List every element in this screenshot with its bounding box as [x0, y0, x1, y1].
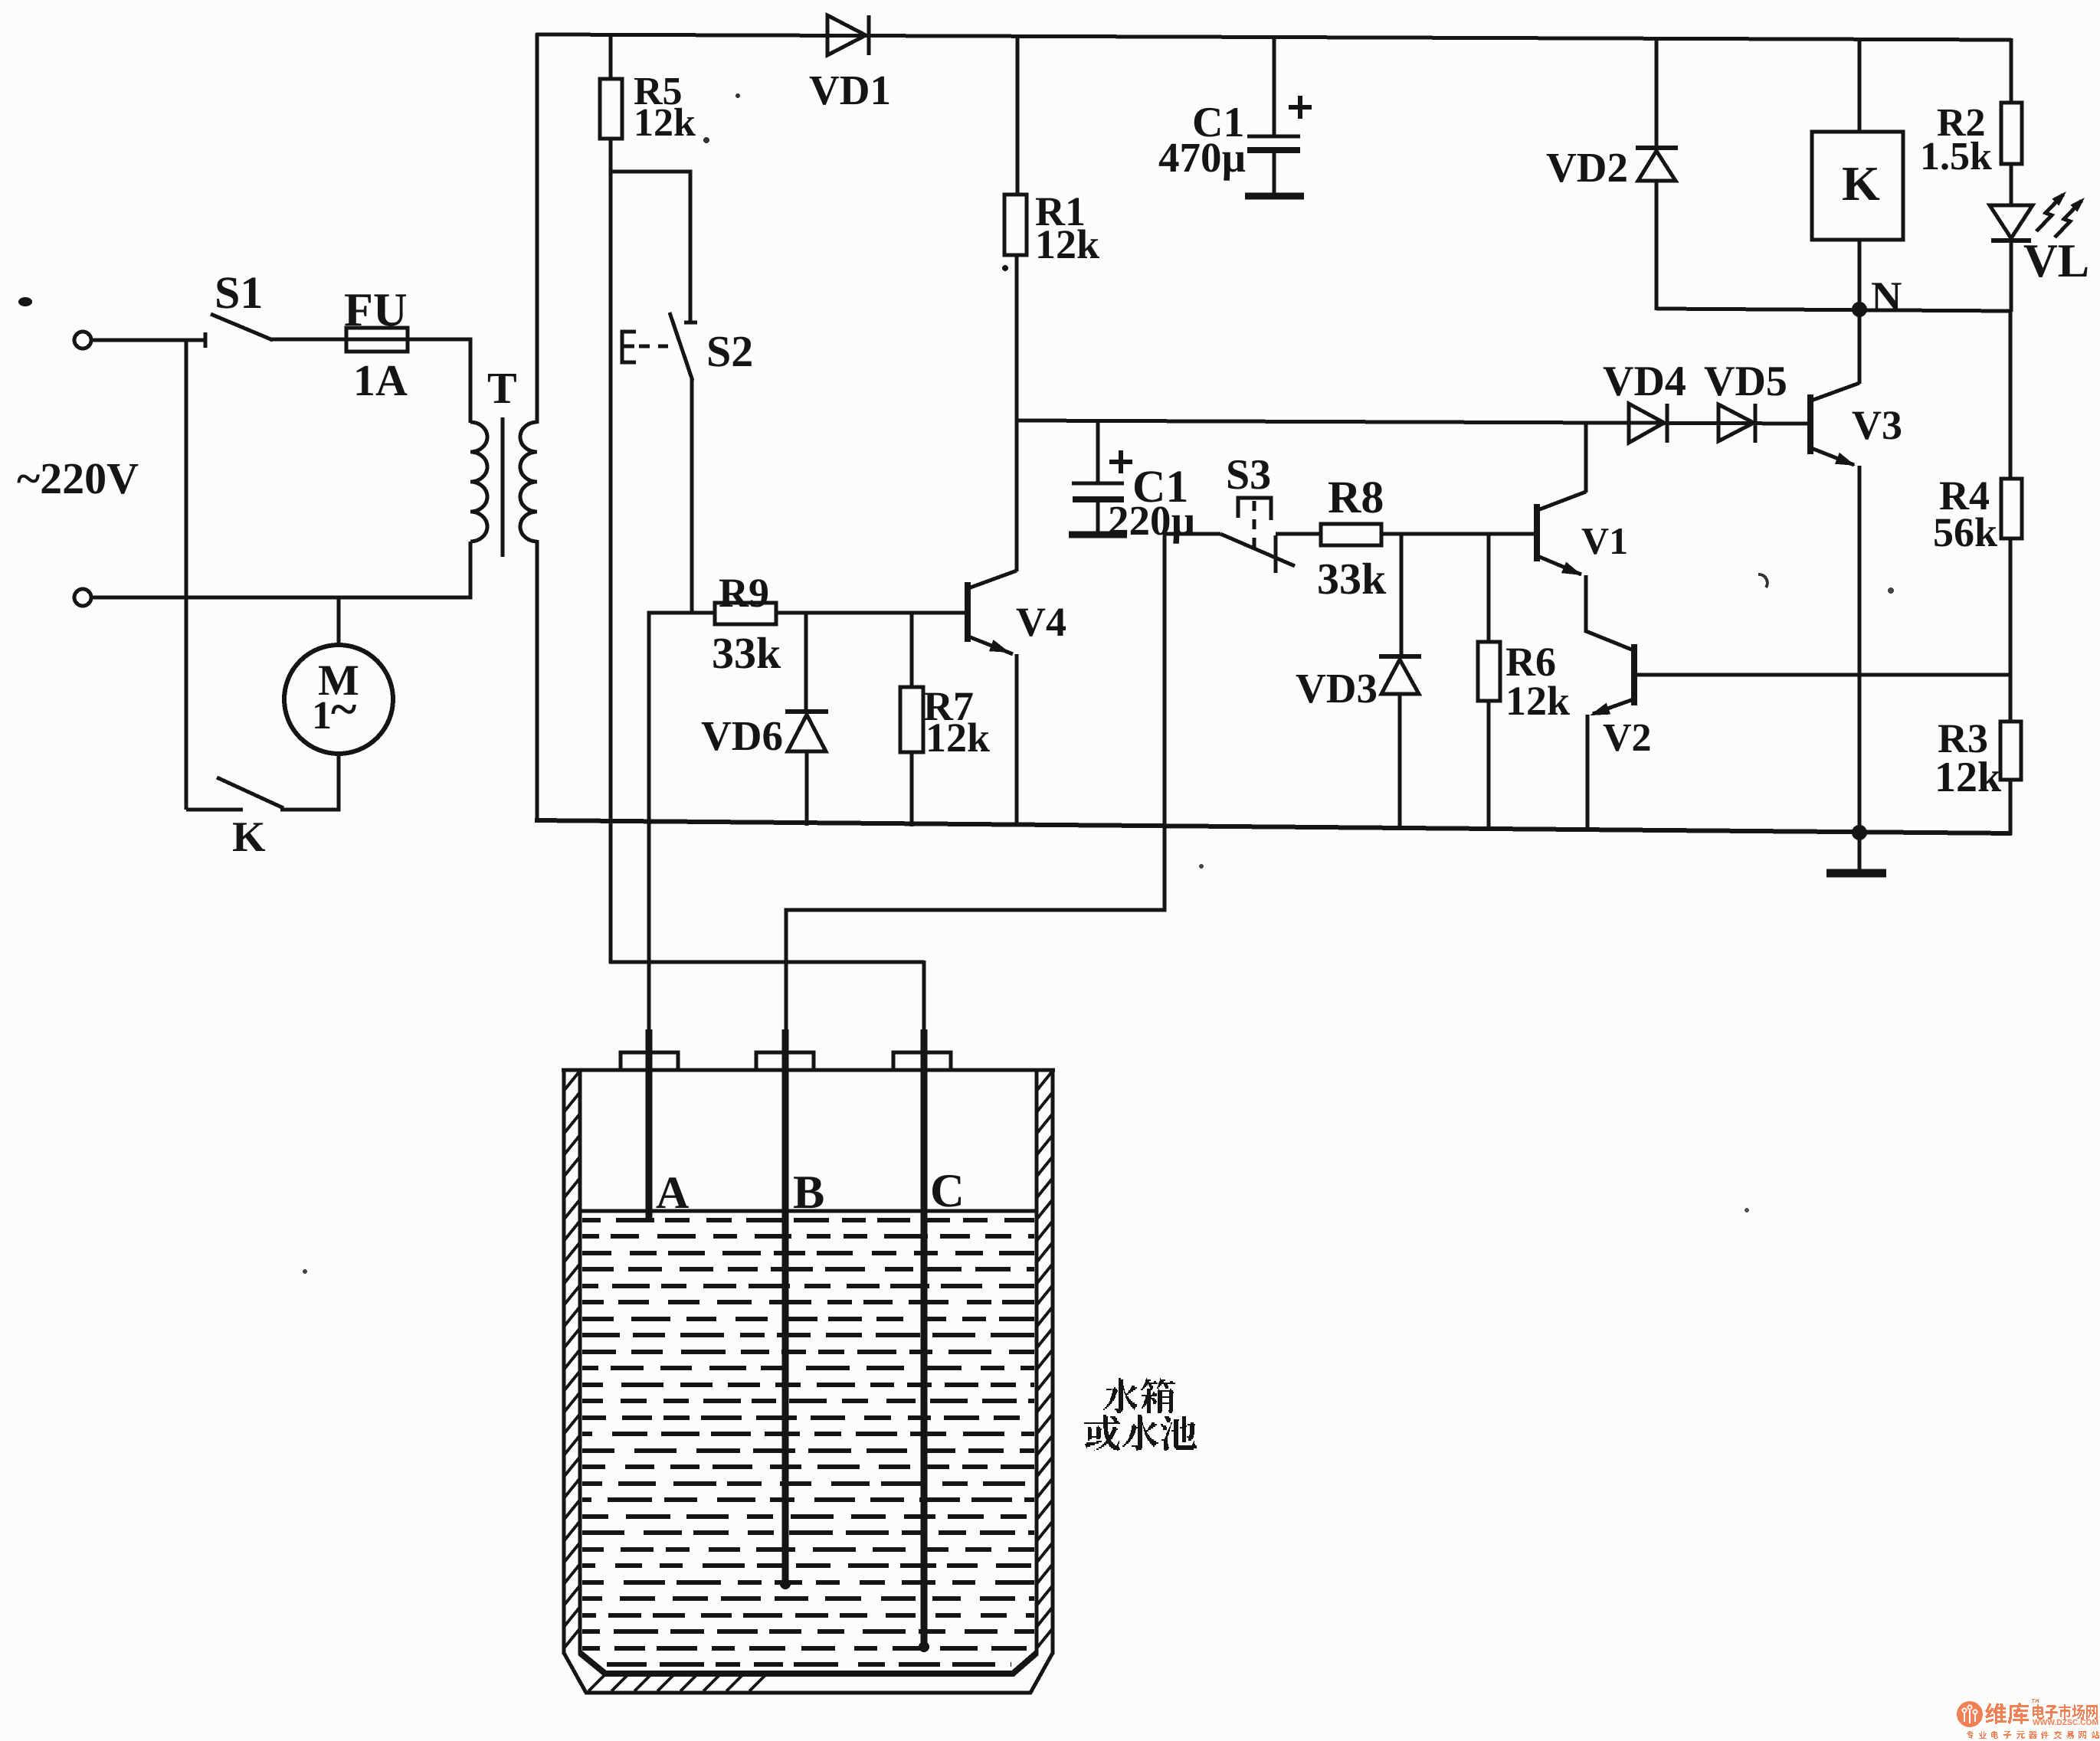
label VD2 [1546, 144, 1628, 191]
zener diode VD2 [1636, 148, 1678, 181]
wire: branch to S2 [611, 172, 697, 322]
svg-text:V4: V4 [1016, 599, 1066, 645]
label VD3 [1296, 665, 1378, 712]
diode VD1 [827, 15, 869, 55]
wire: VL to node N wire [2010, 238, 2013, 312]
wire: VD3 to ground bus [1398, 692, 1402, 829]
wire: R4 to V2 base junction [2009, 538, 2013, 723]
transistor V1 [1537, 492, 1586, 575]
label V3 [1852, 402, 1902, 448]
wire: V2 base to R3/R4 junction [1634, 673, 2010, 677]
svg-text:220µ: 220µ [1108, 497, 1195, 544]
capacitor C1 220u [1069, 483, 1127, 535]
diode VD4 [1629, 404, 1667, 443]
label C1 470u [1158, 99, 1246, 181]
relay contact K blade [217, 777, 283, 808]
label 1A [353, 355, 408, 405]
svg-text:470µ: 470µ [1158, 134, 1246, 181]
label C [930, 1165, 965, 1217]
switch S3 right contact [1274, 535, 1278, 573]
wire: top rail to R5 [609, 34, 613, 80]
label K relay [1842, 156, 1880, 211]
svg-text:R8: R8 [1328, 472, 1384, 522]
electrode C [919, 1029, 929, 1652]
svg-text:33k: 33k [712, 628, 781, 678]
label VL [2023, 235, 2089, 287]
scan speckles [18, 93, 1894, 1274]
wire: R9 wire to VD6 [804, 613, 808, 713]
resistor R4 [2001, 479, 2022, 538]
diode VD5 [1718, 404, 1755, 443]
electrode cap B [756, 1052, 814, 1070]
svg-text:~: ~ [331, 682, 356, 736]
label R4 [1933, 473, 1997, 555]
relay K coil [1812, 132, 1903, 240]
svg-text:VD6: VD6 [701, 712, 783, 759]
wire: motor M to AC line 2 junction [337, 597, 341, 646]
svg-text:12k: 12k [1035, 221, 1099, 267]
label T [487, 363, 517, 413]
electrode A [646, 1029, 653, 1220]
plus sign C1 220u [1109, 450, 1132, 473]
label ~220V [17, 453, 139, 503]
electrode B [780, 1029, 791, 1589]
zener diode VD6 [785, 712, 828, 751]
wire: R8 to V1 base [1381, 532, 1538, 536]
transistor V4 [968, 571, 1017, 654]
wire: probe C horizontal run [609, 960, 924, 964]
svg-text:1: 1 [312, 694, 332, 738]
resistor R9 [715, 603, 776, 624]
wire: R7 to ground bus [910, 752, 914, 826]
resistor R7 [900, 687, 923, 752]
resistor R3 [2000, 722, 2021, 780]
label water-tank (水箱) [1103, 1378, 1175, 1413]
transformer T core [501, 417, 505, 557]
capacitor C1 470u [1245, 136, 1304, 196]
wire: branch to relay contact K [186, 340, 243, 810]
wire: ground bus [535, 820, 2012, 833]
svg-text:FU: FU [344, 284, 408, 336]
label R6 [1505, 639, 1570, 724]
resistor R1 [1004, 195, 1027, 255]
electrode cap C [893, 1052, 951, 1070]
wire: K contact to motor M [280, 754, 339, 810]
svg-text:V3: V3 [1852, 402, 1902, 448]
wire: base wire to VD3 [1400, 534, 1404, 658]
label R5 [634, 70, 696, 145]
label C1 220u [1108, 461, 1195, 544]
wire: node N horizontal [1656, 309, 2010, 311]
water tank left wall [564, 1068, 580, 1654]
transistor V3 [1810, 383, 1859, 466]
svg-text:N: N [1871, 273, 1902, 321]
label VD1 [809, 67, 891, 113]
label R2 [1920, 101, 1992, 178]
wire: top rail VD1 anode side [0, 0, 1, 1]
wire: S2 to R9 node [690, 378, 694, 614]
wire: top rail to C1 [1273, 35, 1276, 138]
wire: R2 to VL [2010, 164, 2013, 207]
wire: R3 to ground bus [2009, 780, 2013, 835]
wire: top rail right corner to R2 [2010, 38, 2013, 104]
wire: left rail (secondary bottom) [536, 540, 539, 823]
zener diode VD3 [1379, 656, 1421, 694]
switch S3 blade [1220, 534, 1295, 566]
wire: R9 input from probe A [647, 611, 651, 1036]
svg-text:S1: S1 [215, 267, 263, 318]
label V4 [1016, 599, 1066, 645]
svg-text:S3: S3 [1226, 451, 1271, 499]
label R1 [1035, 188, 1099, 267]
terminal: AC line input upper [74, 332, 91, 349]
wire: primary bottom to AC line 2 [90, 542, 470, 597]
wire: upper AC line to S1 [91, 332, 205, 348]
wire: V1 emitter to V2 collector [1584, 575, 1588, 633]
watermark logo 维库电子市场网 [1957, 1699, 2099, 1739]
terminal: AC line input lower [74, 589, 91, 606]
wire: base rail to C1 220u [1096, 421, 1100, 485]
wire: V1/V3 base rail [1017, 421, 1810, 424]
svg-text:33k: 33k [1317, 554, 1387, 604]
label N [1871, 273, 1902, 321]
wire: probe B feed corner [786, 535, 1165, 1036]
wire: VD6 to ground bus [805, 750, 809, 826]
label R8 [1317, 472, 1387, 604]
motor M [284, 645, 393, 754]
svg-text:K: K [232, 813, 266, 861]
wire: R5 to probe C run [609, 139, 613, 964]
svg-text:VD1: VD1 [809, 67, 891, 113]
svg-text:VD3: VD3 [1296, 665, 1378, 712]
wire: probe C drop to tank [922, 960, 926, 1036]
wire: S3 to R8 [1276, 532, 1322, 536]
label VD5 [1704, 358, 1787, 405]
label R9 [712, 570, 781, 678]
label S1 [215, 267, 263, 318]
wire: relay K to node N [1858, 240, 1862, 311]
wire: S1 to FU [270, 338, 346, 342]
label B [793, 1167, 824, 1219]
wire: V2 emitter to ground bus [1586, 715, 1590, 830]
wire: N wire to R4 [2009, 310, 2013, 480]
node: emitter/ground junction [1852, 825, 1867, 840]
switch S2 actuator [622, 332, 668, 362]
switch S3 actuator [1238, 498, 1271, 548]
label V1 [1581, 519, 1628, 562]
svg-text:V1: V1 [1581, 519, 1628, 562]
wire: top rail to R1 [1016, 34, 1020, 196]
svg-text:K: K [1842, 156, 1880, 211]
label M 1~ [312, 656, 359, 738]
transistor V2 [1586, 631, 1634, 715]
svg-text:12k: 12k [1935, 754, 2002, 801]
svg-text:1A: 1A [353, 355, 408, 405]
label A [656, 1167, 689, 1218]
svg-text:R9: R9 [719, 570, 769, 616]
water tank right wall [1037, 1068, 1053, 1654]
transformer T secondary winding [520, 422, 537, 542]
svg-text:56k: 56k [1933, 509, 1997, 555]
svg-text:VD2: VD2 [1546, 144, 1628, 191]
wire: base wire to R6 [1487, 534, 1491, 643]
wire: V3 emitter down [1858, 466, 1862, 833]
switch S1 blade [211, 314, 273, 340]
svg-text:S2: S2 [706, 326, 753, 376]
wire: node N to V3 collector [1858, 309, 1862, 384]
LED VL arrows [2036, 191, 2085, 237]
svg-text:1.5k: 1.5k [1920, 135, 1992, 178]
label S3 [1226, 451, 1271, 499]
resistor R5 [600, 79, 622, 139]
wire: FU to transformer primary [408, 339, 470, 423]
wire: left rail (secondary top) [536, 33, 539, 424]
svg-text:~220V: ~220V [17, 453, 139, 503]
wire: top rail to relay K [1858, 38, 1862, 133]
water (dashed fill) [582, 1220, 1034, 1664]
resistor R6 [1478, 642, 1500, 701]
wire: S3 left contact [1163, 532, 1220, 536]
plus sign C1 470u [1289, 96, 1312, 119]
node N [1852, 302, 1867, 317]
resistor R8 [1321, 524, 1381, 545]
label R7 [923, 683, 990, 761]
wire: V1 collector to base rail [1584, 424, 1588, 493]
wire: R6 to ground bus [1487, 701, 1491, 830]
svg-text:VD5: VD5 [1704, 358, 1787, 405]
wire: R9 wire to R7 [910, 613, 914, 689]
label or-pool (或水池) [1084, 1415, 1197, 1451]
svg-text:12k: 12k [634, 101, 696, 145]
label VD4 [1603, 358, 1686, 405]
label V2 [1603, 716, 1652, 760]
water tank bottom [564, 1653, 1053, 1693]
svg-text:12k: 12k [1505, 678, 1570, 724]
wire: V4 emitter to ground bus [1015, 654, 1019, 825]
resistor R2 [2001, 103, 2022, 164]
svg-text:WWW.DZSC.COM: WWW.DZSC.COM [2033, 1718, 2098, 1727]
wire: top rail to VD2 [1655, 37, 1659, 149]
label VD6 [701, 712, 783, 759]
svg-text:VD4: VD4 [1603, 358, 1686, 405]
wire: top supply rail [536, 34, 2011, 40]
svg-text:VL: VL [2023, 235, 2089, 287]
svg-text:V2: V2 [1603, 716, 1652, 760]
water surface line [580, 1209, 1037, 1213]
water tank rim [562, 1068, 1055, 1072]
switch S2 blade [670, 313, 693, 381]
label FU [344, 284, 408, 336]
electrode cap A [621, 1052, 678, 1070]
wire: R1 to V4 collector / base rail junction [1015, 255, 1019, 571]
svg-text:T: T [487, 363, 517, 413]
wire: R9 node to V4 base [647, 611, 968, 615]
svg-text:12k: 12k [926, 715, 990, 761]
fuse FU 1A [346, 328, 408, 352]
wire: VD2 to N wire [1655, 179, 1659, 310]
LED VL [1990, 205, 2033, 241]
transformer T primary winding [470, 422, 487, 542]
label S2 [706, 326, 753, 376]
label K contact [232, 813, 266, 861]
ground [1826, 833, 1886, 873]
label R3 [1935, 715, 2002, 801]
